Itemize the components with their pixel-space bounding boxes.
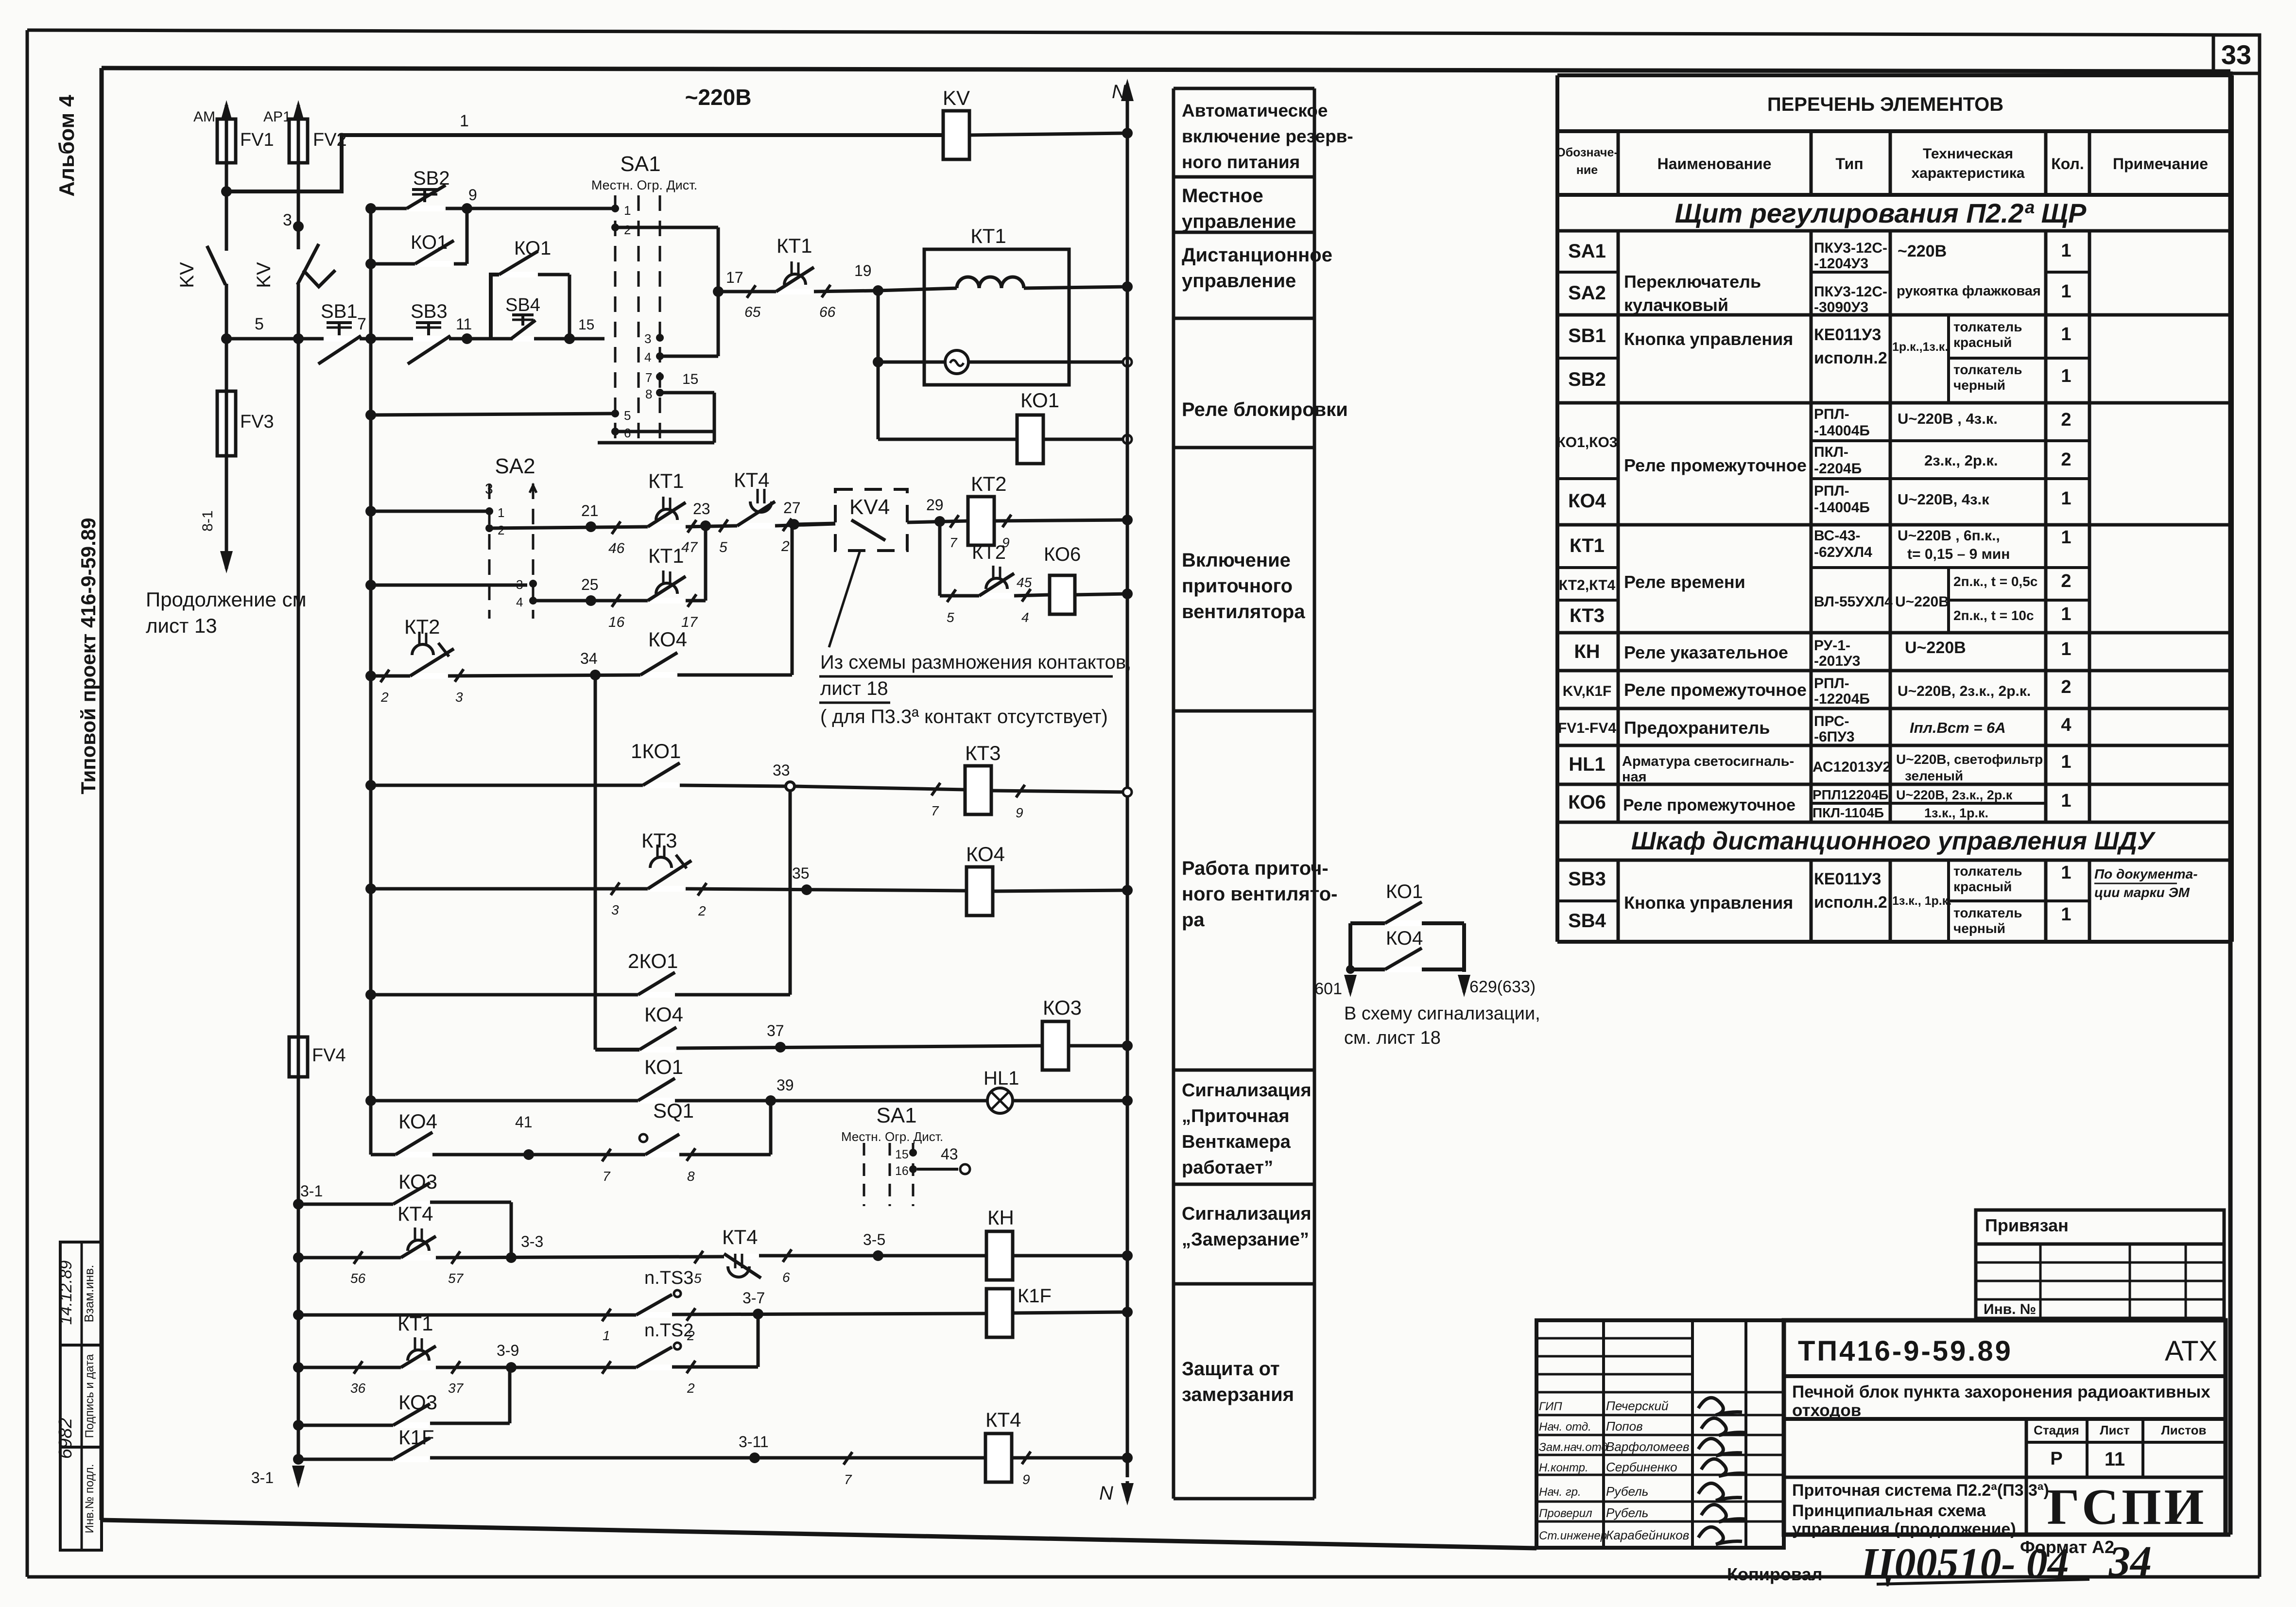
svg-text:Защита от: Защита от xyxy=(1182,1358,1280,1380)
svg-text:Привязан: Привязан xyxy=(1985,1215,2069,1235)
svg-text:включение резерв-: включение резерв- xyxy=(1182,126,1353,146)
svg-text:Примечание: Примечание xyxy=(2113,155,2208,173)
svg-text:см. лист 18: см. лист 18 xyxy=(1344,1028,1441,1048)
svg-text:8-1: 8-1 xyxy=(200,510,216,531)
svg-text:33: 33 xyxy=(2221,39,2251,70)
svg-text:Кол.: Кол. xyxy=(2051,155,2084,173)
svg-text:7: 7 xyxy=(603,1169,611,1184)
svg-text:1: 1 xyxy=(2061,488,2071,509)
svg-text:Наименование: Наименование xyxy=(1657,155,1772,173)
svg-text:FV1-FV4: FV1-FV4 xyxy=(1558,720,1616,736)
svg-text:5: 5 xyxy=(719,539,727,555)
svg-text:РУ-1-: РУ-1- xyxy=(1814,638,1850,654)
svg-text:27: 27 xyxy=(783,499,801,517)
svg-text:KV,К1F: KV,К1F xyxy=(1563,683,1612,699)
svg-text:-201У3: -201У3 xyxy=(1814,653,1860,669)
svg-text:KV: KV xyxy=(943,86,970,109)
svg-text:ПКУ3-12С-: ПКУ3-12С- xyxy=(1814,284,1887,300)
svg-text:Переключатель: Переключатель xyxy=(1624,272,1761,292)
svg-text:5: 5 xyxy=(624,408,631,423)
svg-text:КТ2: КТ2 xyxy=(971,472,1006,495)
svg-text:U~220В, 2з.к., 2р.к: U~220В, 2з.к., 2р.к xyxy=(1896,788,2013,802)
svg-text:1: 1 xyxy=(498,505,504,520)
svg-text:36: 36 xyxy=(350,1381,366,1396)
svg-text:„Приточная: „Приточная xyxy=(1182,1106,1290,1126)
svg-text:ГИП: ГИП xyxy=(1539,1400,1562,1413)
svg-text:К1F: К1F xyxy=(398,1426,434,1449)
svg-text:КТ1: КТ1 xyxy=(397,1312,433,1335)
svg-text:АТХ: АТХ xyxy=(2165,1335,2217,1367)
svg-text:1: 1 xyxy=(2061,904,2071,925)
svg-text:ная: ная xyxy=(1622,769,1647,785)
svg-text:1: 1 xyxy=(2061,752,2071,772)
svg-text:ПКЛ-: ПКЛ- xyxy=(1814,444,1848,460)
svg-text:Сигнализация: Сигнализация xyxy=(1182,1080,1312,1101)
svg-text:2: 2 xyxy=(781,538,790,554)
svg-text:5: 5 xyxy=(255,315,264,333)
svg-text:КТ3: КТ3 xyxy=(641,829,677,852)
svg-text:n.TS3: n.TS3 xyxy=(644,1268,693,1288)
svg-text:Рубель: Рубель xyxy=(1606,1505,1648,1520)
svg-text:Рубель: Рубель xyxy=(1606,1484,1648,1499)
svg-text:ции марки ЭМ: ции марки ЭМ xyxy=(2094,885,2190,900)
svg-text:Реле промежуточное: Реле промежуточное xyxy=(1624,455,1807,475)
svg-text:7: 7 xyxy=(949,535,958,550)
svg-text:-2204Б: -2204Б xyxy=(1814,461,1862,477)
svg-text:2: 2 xyxy=(2061,571,2071,591)
svg-text:отходов: отходов xyxy=(1792,1401,1861,1420)
svg-text:лист 13: лист 13 xyxy=(146,614,217,637)
svg-text:1: 1 xyxy=(2061,604,2071,624)
svg-text:Принципиальная схема: Принципиальная схема xyxy=(1792,1502,1986,1520)
svg-text:черный: черный xyxy=(1953,378,2005,393)
svg-text:SB2: SB2 xyxy=(413,168,450,189)
svg-text:FV4: FV4 xyxy=(312,1045,346,1066)
svg-text:-14004Б: -14004Б xyxy=(1814,500,1870,516)
svg-text:5: 5 xyxy=(947,610,954,625)
svg-text:7: 7 xyxy=(844,1472,852,1487)
svg-text:ПКЛ-1104Б: ПКЛ-1104Б xyxy=(1813,805,1884,820)
svg-text:КТ1: КТ1 xyxy=(648,469,684,492)
svg-text:9: 9 xyxy=(468,186,477,204)
svg-text:КО4: КО4 xyxy=(1568,490,1606,512)
svg-text:РПЛ12204Б: РПЛ12204Б xyxy=(1813,787,1888,802)
svg-text:3: 3 xyxy=(455,690,463,705)
svg-text:11: 11 xyxy=(2105,1449,2125,1470)
svg-text:РПЛ-: РПЛ- xyxy=(1814,675,1849,691)
svg-text:Нач. отд.: Нач. отд. xyxy=(1539,1420,1591,1434)
svg-text:2: 2 xyxy=(698,903,706,918)
svg-text:19: 19 xyxy=(854,262,872,279)
svg-text:КО3: КО3 xyxy=(398,1170,437,1193)
svg-text:Р: Р xyxy=(2050,1449,2062,1469)
svg-text:КТ1: КТ1 xyxy=(777,234,812,257)
svg-text:КО1: КО1 xyxy=(644,1055,683,1078)
svg-text:43: 43 xyxy=(941,1145,958,1163)
svg-text:толкатель: толкатель xyxy=(1953,905,2022,920)
svg-text:3: 3 xyxy=(485,481,493,497)
svg-text:Реле блокировки: Реле блокировки xyxy=(1182,399,1348,420)
svg-text:3-11: 3-11 xyxy=(739,1433,769,1451)
svg-text:33: 33 xyxy=(773,761,790,779)
svg-text:2п.к., t = 0,5с: 2п.к., t = 0,5с xyxy=(1953,574,2037,589)
svg-text:КО1: КО1 xyxy=(1386,881,1423,902)
svg-text:Реле промежуточное: Реле промежуточное xyxy=(1624,680,1807,700)
svg-text:4: 4 xyxy=(644,350,651,364)
svg-text:23: 23 xyxy=(693,500,710,518)
svg-text:КО3: КО3 xyxy=(398,1391,437,1414)
svg-text:1: 1 xyxy=(2061,639,2071,659)
svg-text:ра: ра xyxy=(1182,909,1205,931)
svg-text:Тип: Тип xyxy=(1835,155,1863,173)
svg-text:КТ4: КТ4 xyxy=(722,1226,758,1248)
svg-text:управление: управление xyxy=(1182,211,1296,232)
svg-text:SQ1: SQ1 xyxy=(653,1099,694,1122)
svg-text:5: 5 xyxy=(694,1271,702,1286)
svg-text:Дистанционное: Дистанционное xyxy=(1182,244,1332,266)
svg-text:Автоматическое: Автоматическое xyxy=(1182,101,1328,121)
svg-text:КТ4: КТ4 xyxy=(734,468,769,491)
svg-text:ние: ние xyxy=(1576,163,1598,177)
svg-text:ПКУ3-12С-: ПКУ3-12С- xyxy=(1814,240,1887,256)
svg-text:1: 1 xyxy=(2061,863,2071,883)
svg-text:2: 2 xyxy=(2061,677,2071,697)
svg-text:-62УХЛ4: -62УХЛ4 xyxy=(1814,544,1872,560)
svg-text:3-1: 3-1 xyxy=(300,1182,323,1200)
svg-text:-14004Б: -14004Б xyxy=(1814,423,1870,439)
svg-text:Предохранитель: Предохранитель xyxy=(1624,718,1770,738)
svg-text:Техническая: Техническая xyxy=(1923,146,2013,162)
svg-text:1: 1 xyxy=(2061,324,2071,345)
svg-text:ПРС-: ПРС- xyxy=(1814,713,1849,729)
svg-text:Инв.№ подл.: Инв.№ подл. xyxy=(83,1464,96,1534)
svg-text:n.TS2: n.TS2 xyxy=(644,1320,693,1341)
svg-text:Печной блок пункта захоронения: Печной блок пункта захоронения радиоакти… xyxy=(1792,1382,2210,1401)
svg-text:U~220В , 4з.к.: U~220В , 4з.к. xyxy=(1898,410,1998,427)
svg-text:исполн.2: исполн.2 xyxy=(1814,893,1887,912)
svg-text:Копировал: Копировал xyxy=(1727,1564,1822,1584)
svg-text:8: 8 xyxy=(645,387,652,401)
svg-text:зеленый: зеленый xyxy=(1905,768,1963,783)
svg-text:КТ1: КТ1 xyxy=(970,225,1006,247)
svg-text:U~220В, 2з.к., 2р.к.: U~220В, 2з.к., 2р.к. xyxy=(1898,683,2031,699)
svg-text:8: 8 xyxy=(687,1169,695,1184)
svg-text:КЕ011У3: КЕ011У3 xyxy=(1814,326,1881,344)
svg-text:-1204У3: -1204У3 xyxy=(1814,256,1868,272)
svg-text:работает”: работает” xyxy=(1182,1158,1273,1178)
svg-text:Местное: Местное xyxy=(1182,185,1263,207)
svg-text:3: 3 xyxy=(516,577,523,592)
svg-text:АР1: АР1 xyxy=(263,109,291,125)
svg-text:красный: красный xyxy=(1953,335,2012,350)
svg-text:25: 25 xyxy=(581,576,599,593)
svg-text:SB3: SB3 xyxy=(1568,868,1606,890)
svg-text:3-7: 3-7 xyxy=(742,1289,765,1307)
svg-text:КО6: КО6 xyxy=(1568,792,1606,813)
svg-text:9: 9 xyxy=(1016,805,1023,820)
svg-text:Реле времени: Реле времени xyxy=(1624,572,1745,592)
svg-text:SA1: SA1 xyxy=(1568,241,1606,262)
svg-text:1: 1 xyxy=(460,112,469,130)
svg-text:4: 4 xyxy=(2061,715,2071,735)
svg-text:U~220В , 6п.к.,: U~220В , 6п.к., xyxy=(1898,528,2000,544)
svg-text:39: 39 xyxy=(777,1076,794,1094)
svg-text:КО1: КО1 xyxy=(411,232,448,253)
svg-text:2: 2 xyxy=(624,223,631,237)
svg-text:SA2: SA2 xyxy=(495,454,535,478)
svg-text:HL1: HL1 xyxy=(984,1068,1019,1089)
svg-text:толкатель: толкатель xyxy=(1953,864,2022,879)
svg-text:KV: KV xyxy=(176,262,198,288)
svg-text:КТ3: КТ3 xyxy=(965,742,1001,764)
svg-text:7: 7 xyxy=(645,370,652,385)
svg-text:КТ1: КТ1 xyxy=(1570,535,1605,556)
svg-text:6982: 6982 xyxy=(55,1418,76,1459)
svg-text:( для П3.3ª контакт отсутст: ( для П3.3ª контакт отсутствует) xyxy=(820,706,1108,727)
svg-text:КТ4: КТ4 xyxy=(397,1202,433,1225)
svg-text:2КО1: 2КО1 xyxy=(628,950,678,972)
svg-text:КТ4: КТ4 xyxy=(985,1408,1021,1431)
svg-text:4: 4 xyxy=(1021,610,1029,625)
svg-text:КТ2: КТ2 xyxy=(404,615,440,638)
svg-text:КН: КН xyxy=(987,1206,1014,1229)
svg-text:Ст.инженер: Ст.инженер xyxy=(1539,1529,1607,1542)
svg-text:56: 56 xyxy=(350,1271,366,1286)
svg-text:Арматура светосигналь-: Арматура светосигналь- xyxy=(1622,754,1794,769)
svg-text:РПЛ-: РПЛ- xyxy=(1814,483,1849,499)
svg-text:Подпись и дата: Подпись и дата xyxy=(83,1354,96,1438)
svg-text:15: 15 xyxy=(578,317,594,333)
svg-text:1: 1 xyxy=(2061,241,2071,261)
svg-text:41: 41 xyxy=(515,1113,533,1131)
svg-text:Типовой проект 416-9-59.89: Типовой проект 416-9-59.89 xyxy=(77,518,100,794)
svg-text:SB1: SB1 xyxy=(321,301,358,322)
svg-text:КТ2: КТ2 xyxy=(972,542,1006,563)
svg-text:КО6: КО6 xyxy=(1044,544,1081,565)
svg-text:В схему сигнализации,: В схему сигнализации, xyxy=(1344,1003,1540,1024)
svg-text:SA2: SA2 xyxy=(1568,282,1606,304)
svg-text:Iпл.Вст = 6А: Iпл.Вст = 6А xyxy=(1910,719,2006,736)
svg-text:ного питания: ного питания xyxy=(1182,152,1300,172)
svg-text:Реле указательное: Реле указательное xyxy=(1624,642,1788,662)
svg-text:Местн. Огр. Дист.: Местн. Огр. Дист. xyxy=(841,1129,943,1144)
svg-text:КО3: КО3 xyxy=(1043,996,1082,1019)
svg-text:SA1: SA1 xyxy=(876,1104,916,1127)
svg-text:11: 11 xyxy=(456,315,472,333)
svg-text:лист 18: лист 18 xyxy=(820,678,888,699)
svg-text:7: 7 xyxy=(931,803,939,818)
svg-text:1КО1: 1КО1 xyxy=(631,740,681,762)
svg-text:U~220В, 4з.к: U~220В, 4з.к xyxy=(1898,491,1989,508)
svg-text:Реле промежуточное: Реле промежуточное xyxy=(1623,796,1795,814)
svg-text:2: 2 xyxy=(498,523,504,537)
svg-text:черный: черный xyxy=(1953,921,2005,936)
svg-text:2: 2 xyxy=(687,1381,695,1396)
svg-text:Сигнализация: Сигнализация xyxy=(1182,1204,1312,1224)
svg-text:34: 34 xyxy=(2108,1538,2152,1585)
svg-text:37: 37 xyxy=(448,1381,464,1396)
svg-text:Щит регулирования П2.2ª ЩР: Щит регулирования П2.2ª ЩР xyxy=(1675,198,2087,228)
svg-text:3-1: 3-1 xyxy=(251,1469,274,1486)
svg-text:4: 4 xyxy=(516,595,523,609)
svg-text:красный: красный xyxy=(1953,879,2012,894)
svg-text:Зам.нач.отд: Зам.нач.отд xyxy=(1539,1441,1608,1454)
svg-text:Приточная система П2.2ª(П3.3ª): Приточная система П2.2ª(П3.3ª) xyxy=(1792,1481,2049,1500)
svg-text:приточного: приточного xyxy=(1182,575,1293,597)
svg-text:Стадия: Стадия xyxy=(2034,1423,2079,1437)
svg-text:По документа-: По документа- xyxy=(2094,866,2198,881)
svg-text:КЕ011У3: КЕ011У3 xyxy=(1814,870,1881,888)
svg-text:3-9: 3-9 xyxy=(497,1342,519,1359)
svg-text:SB3: SB3 xyxy=(411,301,448,322)
svg-text:601: 601 xyxy=(1314,980,1342,998)
svg-text:2: 2 xyxy=(380,690,389,705)
svg-text:Инв. №: Инв. № xyxy=(1984,1301,2036,1317)
svg-text:Попов: Попов xyxy=(1606,1419,1643,1434)
svg-text:U~220В: U~220В xyxy=(1905,639,1966,657)
svg-text:1з.к., 1р.к.: 1з.к., 1р.к. xyxy=(1892,894,1951,908)
svg-text:Продолжение см: Продолжение см xyxy=(146,588,306,611)
svg-text:3-3: 3-3 xyxy=(521,1233,543,1250)
svg-text:35: 35 xyxy=(792,864,810,882)
svg-text:кулачковый: кулачковый xyxy=(1624,295,1728,315)
svg-text:АС12013У2: АС12013У2 xyxy=(1813,759,1891,775)
svg-text:ного вентилято-: ного вентилято- xyxy=(1182,883,1338,905)
svg-text:SB4: SB4 xyxy=(505,295,540,315)
svg-text:SB1: SB1 xyxy=(1568,325,1606,346)
svg-text:-3090У3: -3090У3 xyxy=(1814,299,1868,315)
svg-text:Печерский: Печерский xyxy=(1606,1399,1668,1413)
svg-text:вентилятора: вентилятора xyxy=(1182,601,1305,622)
svg-text:45: 45 xyxy=(1017,575,1032,590)
svg-text:57: 57 xyxy=(448,1271,464,1286)
svg-text:KV4: KV4 xyxy=(849,495,890,519)
svg-text:1: 1 xyxy=(2061,366,2071,386)
svg-text:17: 17 xyxy=(726,269,743,286)
svg-text:рукоятка флажковая: рукоятка флажковая xyxy=(1897,283,2041,299)
svg-text:КТ2,КТ4: КТ2,КТ4 xyxy=(1559,577,1616,593)
svg-text:Листов: Листов xyxy=(2161,1423,2207,1437)
svg-text:Работа приточ-: Работа приточ- xyxy=(1182,858,1329,879)
svg-text:АМ: АМ xyxy=(193,109,215,125)
svg-text:1: 1 xyxy=(603,1328,610,1343)
svg-text:РПЛ-: РПЛ- xyxy=(1814,406,1849,422)
svg-text:t= 0,15 – 9 мин: t= 0,15 – 9 мин xyxy=(1907,546,2010,562)
svg-text:Шкаф дистанционного управления: Шкаф дистанционного управления ШДУ xyxy=(1631,827,2156,855)
svg-text:толкатель: толкатель xyxy=(1953,362,2022,377)
svg-text:КО1,КО3: КО1,КО3 xyxy=(1557,434,1618,450)
svg-text:КТ1: КТ1 xyxy=(648,544,684,567)
svg-text:66: 66 xyxy=(819,304,836,320)
svg-text:15: 15 xyxy=(682,371,698,387)
svg-text:FV3: FV3 xyxy=(240,412,274,432)
svg-text:FV1: FV1 xyxy=(240,130,274,150)
svg-text:КО4: КО4 xyxy=(398,1110,437,1133)
svg-text:15: 15 xyxy=(895,1148,909,1161)
svg-text:~220В: ~220В xyxy=(1898,242,1947,260)
svg-text:ТП416-9-59.89: ТП416-9-59.89 xyxy=(1798,1335,2013,1367)
svg-text:исполн.2: исполн.2 xyxy=(1814,349,1887,367)
svg-text:14.12.89: 14.12.89 xyxy=(57,1261,75,1325)
svg-text:3: 3 xyxy=(611,902,619,917)
svg-text:КО4: КО4 xyxy=(1386,928,1423,949)
svg-text:Взам.инв.: Взам.инв. xyxy=(82,1265,96,1323)
svg-text:37: 37 xyxy=(767,1022,784,1039)
svg-text:1: 1 xyxy=(2061,527,2071,548)
svg-text:толкатель: толкатель xyxy=(1953,319,2022,334)
svg-text:Местн. Огр. Дист.: Местн. Огр. Дист. xyxy=(591,178,697,192)
svg-text:КО1: КО1 xyxy=(1020,389,1059,412)
svg-text:16: 16 xyxy=(895,1164,909,1178)
svg-text:Из схемы размножения контактов: Из схемы размножения контактов, xyxy=(820,652,1131,673)
svg-text:замерзания: замерзания xyxy=(1182,1384,1294,1405)
svg-text:29: 29 xyxy=(926,496,944,514)
svg-text:16: 16 xyxy=(608,614,625,630)
svg-text:Н.контр.: Н.контр. xyxy=(1539,1461,1588,1474)
svg-text:Альбом 4: Альбом 4 xyxy=(55,95,79,197)
svg-text:-6ПУ3: -6ПУ3 xyxy=(1814,729,1855,745)
svg-text:1р.к.,1з.к.: 1р.к.,1з.к. xyxy=(1892,340,1948,354)
svg-text:2з.к., 2р.к.: 2з.к., 2р.к. xyxy=(1924,452,1998,469)
svg-text:65: 65 xyxy=(744,304,761,320)
svg-text:3-5: 3-5 xyxy=(863,1231,885,1248)
svg-text:3: 3 xyxy=(283,211,292,229)
svg-text:34: 34 xyxy=(580,650,598,667)
svg-text:U~220В: U~220В xyxy=(1895,594,1949,610)
svg-text:9: 9 xyxy=(1022,1472,1030,1487)
svg-text:„Замерзание”: „Замерзание” xyxy=(1182,1229,1309,1250)
svg-text:Обозначе-: Обозначе- xyxy=(1556,146,1618,159)
svg-text:КО4: КО4 xyxy=(644,1003,683,1026)
svg-text:Кнопка управления: Кнопка управления xyxy=(1624,893,1793,913)
svg-text:KV: KV xyxy=(253,262,275,288)
svg-text:HL1: HL1 xyxy=(1569,754,1605,775)
svg-text:SA1: SA1 xyxy=(620,152,660,176)
svg-text:КТ3: КТ3 xyxy=(1570,605,1605,626)
svg-text:1: 1 xyxy=(2061,281,2071,302)
svg-text:Проверил: Проверил xyxy=(1539,1507,1592,1520)
svg-text:Кнопка управления: Кнопка управления xyxy=(1624,329,1793,349)
svg-text:ВЛ-55УХЛ4: ВЛ-55УХЛ4 xyxy=(1814,594,1893,610)
svg-text:КО4: КО4 xyxy=(966,843,1005,865)
svg-text:21: 21 xyxy=(581,502,599,519)
svg-text:КО1: КО1 xyxy=(514,238,551,259)
svg-text:N: N xyxy=(1112,81,1126,103)
svg-text:управление: управление xyxy=(1182,270,1296,292)
svg-text:U~220В, светофильтр: U~220В, светофильтр xyxy=(1896,752,2043,767)
svg-text:характеристика: характеристика xyxy=(1911,165,2024,181)
svg-text:Карабейников: Карабейников xyxy=(1606,1528,1689,1542)
svg-text:ВС-43-: ВС-43- xyxy=(1814,528,1861,544)
svg-text:Включение: Включение xyxy=(1182,550,1291,571)
svg-text:Венткамера: Венткамера xyxy=(1182,1132,1291,1152)
svg-text:6: 6 xyxy=(782,1270,790,1285)
svg-text:2: 2 xyxy=(2061,410,2071,430)
svg-text:ГСПИ: ГСПИ xyxy=(2047,1478,2207,1535)
svg-text:SB2: SB2 xyxy=(1568,369,1606,390)
svg-text:Сербиненко: Сербиненко xyxy=(1606,1460,1677,1474)
svg-text:Нач. гр.: Нач. гр. xyxy=(1539,1486,1581,1499)
svg-text:ПЕРЕЧЕНЬ ЭЛЕМЕНТОВ: ПЕРЕЧЕНЬ ЭЛЕМЕНТОВ xyxy=(1767,94,2003,115)
svg-text:7: 7 xyxy=(357,315,366,333)
svg-text:КО4: КО4 xyxy=(648,628,687,651)
svg-text:1: 1 xyxy=(2061,791,2071,811)
svg-text:2п.к., t = 10с: 2п.к., t = 10с xyxy=(1953,608,2034,623)
svg-text:1з.к., 1р.к.: 1з.к., 1р.к. xyxy=(1924,806,1988,820)
svg-text:Лист: Лист xyxy=(2100,1423,2130,1437)
svg-text:SB4: SB4 xyxy=(1568,910,1606,932)
svg-text:2: 2 xyxy=(2061,449,2071,470)
